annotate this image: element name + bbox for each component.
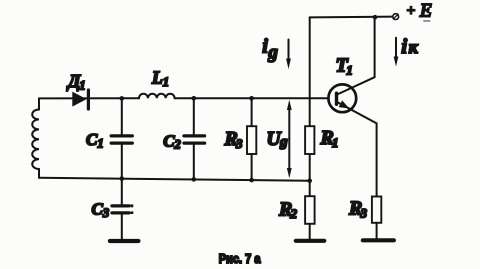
- ground (under C3): [110, 239, 138, 243]
- node: C1/C3 bottom rail junction: [120, 176, 125, 181]
- resistor R1: [305, 126, 338, 154]
- wire: bottom rail: [39, 178, 310, 181]
- svg-text:+: +: [407, 3, 415, 19]
- ground (under emitter R3): [363, 238, 394, 242]
- svg-text:R2: R2: [278, 198, 298, 221]
- svg-text:R1: R1: [320, 127, 339, 150]
- transistor T1 collector lead: [337, 17, 375, 94]
- transistor T1 body: [328, 84, 356, 112]
- label +E: [407, 1, 432, 22]
- svg-text:T1: T1: [336, 55, 353, 78]
- capacitor C3: [92, 179, 134, 240]
- wire: R2 to ground: [309, 224, 311, 240]
- resistor R2: [278, 196, 315, 224]
- svg-text:iк: iк: [401, 34, 418, 58]
- wire: base rail right segment to transistor base: [175, 97, 329, 99]
- svg-text:C3: C3: [92, 200, 110, 220]
- svg-text:E: E: [419, 1, 432, 22]
- svg-text:L1: L1: [151, 67, 169, 88]
- current arrow ig: [262, 36, 291, 70]
- svg-text:R3: R3: [348, 198, 368, 221]
- svg-text:Ug: Ug: [267, 129, 289, 150]
- wire: R1 to divider node: [309, 154, 311, 196]
- node: R1/R2 divider junction: [307, 179, 312, 184]
- svg-text:C1: C1: [86, 130, 104, 150]
- capacitor C2: [163, 98, 204, 179]
- resistor R3 (emitter): [348, 197, 381, 240]
- resistor R3 (base side): [224, 98, 257, 180]
- node: C2 top junction: [192, 96, 197, 101]
- wire: tank left vertical bottom stub: [38, 169, 40, 178]
- node: R3 top junction: [249, 96, 254, 101]
- node: collector / +E rail junction: [373, 15, 378, 20]
- svg-text:R3: R3: [224, 128, 244, 151]
- svg-text:Рис. 7 а: Рис. 7 а: [219, 252, 262, 266]
- inductor L1: [139, 67, 175, 98]
- node: C2 bottom junction: [192, 177, 197, 182]
- current arrow ik: [394, 34, 419, 67]
- svg-text:C2: C2: [163, 131, 181, 151]
- wire: tank left vertical top stub: [38, 98, 40, 109]
- voltage arrow Ug: [267, 100, 292, 178]
- terminal: +E (open circle with slash): [393, 14, 399, 20]
- node: R3 bottom junction: [249, 178, 254, 183]
- wire: +E top rail: [310, 16, 393, 19]
- svg-text:ig: ig: [262, 36, 278, 63]
- capacitor C1: [86, 98, 132, 178]
- diode D1: [66, 71, 88, 109]
- coil: tank inductor (left, 6 turns): [32, 110, 39, 170]
- transistor T1 emitter arrow: [339, 100, 350, 108]
- transistor T1 emitter lead: [337, 102, 377, 197]
- svg-text:Д1: Д1: [66, 71, 86, 92]
- ground (under R2): [296, 239, 325, 243]
- transistor T1 base bar: [335, 93, 338, 104]
- wire: base rail left segment (tank top): [39, 97, 139, 99]
- node: diode / C1 junction: [120, 96, 125, 101]
- wire: +E feed down to R1 (crosses base rail, no junction): [309, 17, 311, 126]
